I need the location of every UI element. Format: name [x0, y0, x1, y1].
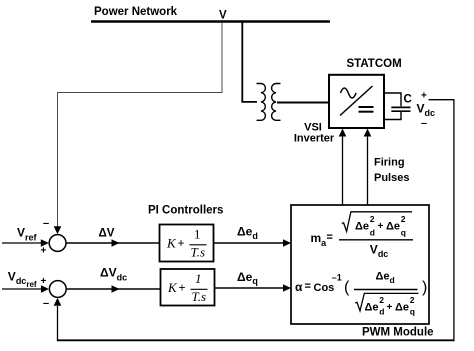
svg-text:Cos: Cos	[314, 282, 335, 294]
wire inverter to capacitor top lead	[384, 93, 401, 106]
PI controller 1 transfer function K + 1/T.s	[166, 227, 207, 260]
wire bus to transformer	[242, 23, 257, 102]
svg-text:d: d	[370, 228, 375, 238]
wire Vdc feedback: right side down, bottom, up into S2	[429, 100, 454, 340]
svg-text:+: +	[378, 221, 384, 232]
svg-text:Pulses: Pulses	[374, 172, 409, 184]
wire PI 2 to PWM module	[215, 287, 287, 289]
arrow on delta-V wire	[112, 239, 120, 247]
svg-text:V: V	[219, 10, 227, 22]
wire bus tap to voltage feedback	[58, 23, 223, 230]
capacitor C plates	[391, 106, 410, 108]
inverter AC sine symbol	[341, 88, 357, 98]
svg-text:+: +	[421, 91, 427, 102]
fraction bar eq2	[354, 289, 418, 291]
svg-text:Δe: Δe	[355, 221, 369, 233]
svg-text:1: 1	[194, 227, 201, 242]
svg-text:–: –	[43, 298, 49, 310]
svg-text:+: +	[179, 281, 186, 295]
arrow into PWM module row 1	[283, 239, 291, 247]
svg-text:q: q	[401, 228, 406, 238]
transformer T1 left winding	[257, 84, 266, 121]
firing pulse wire 2	[367, 133, 369, 205]
svg-text:+: +	[41, 276, 47, 287]
radical sign eq2	[355, 293, 418, 311]
VSI inverter U1 box	[329, 75, 384, 128]
PI controller 1 box	[160, 225, 214, 262]
svg-text:1: 1	[195, 271, 202, 286]
radical sign eq1	[342, 212, 412, 232]
svg-text:=: =	[327, 232, 333, 244]
svg-text:Δe: Δe	[365, 302, 379, 314]
svg-text:+: +	[387, 302, 393, 313]
svg-text:Δe: Δe	[395, 302, 409, 314]
PI controller 2 transfer function K + 1/T.s	[167, 271, 208, 304]
wire Vref input	[2, 242, 43, 244]
svg-text:PWM Module: PWM Module	[362, 327, 434, 339]
svg-text:–: –	[43, 218, 49, 230]
svg-text:T.s: T.s	[192, 289, 207, 304]
power network bus	[91, 20, 330, 23]
svg-text:Firing: Firing	[374, 157, 405, 169]
PI controller 2 box	[161, 269, 215, 306]
transformer T1 right winding	[272, 84, 281, 121]
arrow into summing junction S1 top	[54, 226, 62, 234]
summing junction S2	[49, 281, 66, 298]
fraction bar eq1	[339, 239, 413, 241]
svg-text:T.s: T.s	[191, 245, 206, 260]
PWM module box	[291, 205, 429, 324]
arrow firing pulse 2	[364, 129, 372, 137]
svg-text:Power Network: Power Network	[94, 6, 178, 18]
svg-text:d: d	[379, 307, 384, 317]
svg-text:–: –	[421, 118, 427, 130]
equation m_a = sqrt(ded^2+deq^2)/Vdc	[311, 212, 414, 259]
svg-text:–1: –1	[332, 273, 342, 283]
capacitor C bottom lead to inverter	[384, 112, 401, 120]
svg-text:STATCOM: STATCOM	[347, 58, 402, 70]
arrow into summing junction S2 bottom	[54, 298, 62, 306]
svg-text:q: q	[410, 307, 415, 317]
wire PI 1 to PWM module	[214, 242, 287, 244]
svg-text:K: K	[167, 280, 178, 295]
summing junction S1	[49, 235, 66, 252]
arrow into S1 left	[41, 239, 49, 247]
arrow into S2 left	[41, 285, 49, 293]
svg-text:(: (	[344, 279, 350, 296]
svg-text:Δe: Δe	[386, 221, 400, 233]
arrow firing pulse 1	[339, 129, 347, 137]
svg-text:2: 2	[401, 214, 406, 224]
svg-text:2: 2	[370, 214, 375, 224]
svg-text:2: 2	[410, 295, 415, 305]
firing pulse wire 1	[342, 133, 344, 205]
equation alpha = Cos^-1 (ded / sqrt(ded^2+deq^2))	[295, 271, 427, 317]
wire transformer to VSI inverter	[277, 102, 329, 104]
svg-text:C: C	[404, 94, 412, 106]
inverter DC equals symbol	[359, 106, 374, 108]
svg-text:): )	[422, 279, 427, 296]
svg-text:+: +	[178, 236, 185, 250]
inverter diagonal divider	[340, 86, 373, 116]
svg-text:PI Controllers: PI Controllers	[148, 205, 223, 217]
arrow into PWM module row 2	[283, 284, 291, 292]
svg-text:=: =	[305, 281, 311, 293]
wire Vdcref input	[2, 288, 43, 290]
wire S2 to PI controller 2	[67, 288, 161, 290]
svg-text:α: α	[295, 280, 303, 294]
arrow on delta-Vdc wire	[112, 285, 120, 293]
svg-text:2: 2	[379, 295, 384, 305]
svg-text:+: +	[41, 246, 47, 257]
svg-text:ΔV: ΔV	[99, 228, 115, 240]
wire S1 to PI controller 1	[66, 242, 159, 244]
svg-text:K: K	[166, 236, 177, 251]
svg-text:Inverter: Inverter	[294, 133, 335, 145]
